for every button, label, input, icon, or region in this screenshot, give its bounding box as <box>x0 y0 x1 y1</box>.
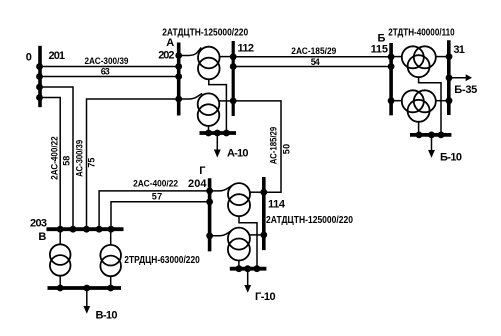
transformer T3 lead to bus 31 <box>435 56 449 58</box>
svg-text:63: 63 <box>101 67 110 77</box>
arrow B-10 stem <box>431 135 433 151</box>
transformer T7 windings <box>228 183 250 205</box>
svg-text:Г: Г <box>199 165 206 177</box>
arrowhead B-35 <box>466 74 472 81</box>
arrowhead A-10 <box>214 150 221 158</box>
wire 201-203 circuit 1 <box>40 87 74 229</box>
arrowhead B-10 <box>428 150 435 158</box>
transformer T4 lead to B-10 bar <box>418 122 420 135</box>
svg-text:В-10: В-10 <box>96 310 118 322</box>
transformer T7 upper G: lead from bus 204 <box>210 185 233 191</box>
junction dots V-10 bar <box>57 285 64 292</box>
svg-text:203: 203 <box>30 217 47 229</box>
svg-text:204: 204 <box>188 178 207 190</box>
svg-text:115: 115 <box>371 44 388 56</box>
transformer T4 windings <box>402 90 424 112</box>
wire 201-202 circuit 1 <box>40 66 179 68</box>
transformer T2 lower A: lead from bus 202 <box>179 93 203 99</box>
svg-text:75: 75 <box>86 158 96 168</box>
junction dots bus 31 <box>446 53 453 60</box>
junction dots B-10 bar <box>416 132 423 139</box>
transformer T5 stem bottom <box>59 276 61 288</box>
wire 112-115 circuit 2 <box>233 66 391 68</box>
svg-text:А-10: А-10 <box>227 148 249 160</box>
svg-text:0: 0 <box>26 51 32 63</box>
junction dots A-10 bar <box>205 130 212 137</box>
bus 204 <box>208 178 212 251</box>
svg-text:В: В <box>38 231 46 243</box>
svg-text:Б-10: Б-10 <box>440 152 462 164</box>
transformer T2 lead to bus 112 <box>219 100 233 102</box>
junction dots bus 203 <box>57 226 64 233</box>
wire 201-202 circuit 2 <box>40 76 179 78</box>
arrowhead V-10 <box>83 306 90 314</box>
junction dots bus 112 <box>230 53 237 60</box>
bus 203 <box>47 227 124 231</box>
bus 114 <box>262 177 266 250</box>
svg-text:201: 201 <box>49 50 66 62</box>
V-10 load bar <box>48 286 122 290</box>
svg-text:2АС-300/39: 2АС-300/39 <box>85 56 129 66</box>
transformer T6 windings <box>100 245 121 266</box>
wire 112-114 <box>233 101 281 192</box>
svg-text:114: 114 <box>268 199 286 211</box>
arrow B-35 stem <box>449 77 466 79</box>
transformer T6 stem bottom <box>110 276 112 288</box>
bus 201 <box>38 46 42 107</box>
wire 201-203 circuit 2 <box>40 98 61 230</box>
junction dots bus 202 <box>175 52 182 59</box>
transformer T1 lead to bus 112 <box>219 56 233 58</box>
transformer T1 upper A: lead from bus 202 <box>179 48 202 56</box>
svg-text:2ТРДЦН-63000/220: 2ТРДЦН-63000/220 <box>124 255 200 266</box>
transformer T7 lead to G-10 bar <box>239 216 257 269</box>
bus 115 <box>389 43 393 115</box>
svg-text:112: 112 <box>238 43 255 55</box>
svg-text:2ТДТН-40000/110: 2ТДТН-40000/110 <box>388 27 455 38</box>
wire 202-203 <box>87 99 179 229</box>
transformer T2 lead to A-10 bar <box>208 126 210 133</box>
svg-text:2АС-185/29: 2АС-185/29 <box>291 46 336 56</box>
B-10 load bar <box>410 133 451 137</box>
svg-text:АС-185/29: АС-185/29 <box>269 127 279 165</box>
transformer T7 lead to bus 114 <box>250 191 264 193</box>
transformer T3 lead to B-10 bar <box>419 77 441 135</box>
arrow V-10 stem <box>86 288 88 307</box>
svg-text:202: 202 <box>158 49 174 61</box>
wire 203-204 circuit 2 <box>111 202 210 229</box>
arrow A-10 <box>216 133 218 150</box>
junction dots bus 204 <box>206 188 213 195</box>
transformer T4 lower B: lead from bus 115 <box>391 100 402 102</box>
G-10 load bar <box>230 267 267 271</box>
transformer T4 lead to bus 31 <box>435 100 449 102</box>
transformer T2 lower A windings <box>198 93 220 115</box>
junction dots bus 115 <box>388 53 395 60</box>
svg-text:АС-300/39: АС-300/39 <box>74 140 84 177</box>
junction dots bus 114 <box>260 189 267 196</box>
transformer T3 windings <box>402 46 424 68</box>
arrow G-10 stem <box>247 269 249 286</box>
transformer T6 stem top <box>110 229 112 245</box>
wire 112-115 circuit 1 <box>233 56 391 58</box>
transformer T8 lower G: lead from bus 204 <box>210 230 233 236</box>
transformer T1 lead to A-10 bar <box>209 79 227 133</box>
bus 203 transformer T5 stem top <box>59 229 61 244</box>
junction dots G-10 bar <box>236 265 243 272</box>
transformer T8 lead to G-10 bar <box>238 261 240 269</box>
bus 31 <box>447 40 451 115</box>
transformer T5 windings <box>50 244 71 265</box>
svg-text:2АТДЦТН-125000/220: 2АТДЦТН-125000/220 <box>266 215 353 226</box>
svg-text:58: 58 <box>62 156 72 166</box>
bus 112 <box>232 41 235 116</box>
transformer T8 lead to bus 114 <box>250 234 264 236</box>
svg-text:Г-10: Г-10 <box>255 291 276 303</box>
svg-text:54: 54 <box>311 57 320 67</box>
transformer T3 upper B: lead from bus 115 <box>391 56 402 58</box>
svg-text:Б-35: Б-35 <box>454 84 477 96</box>
arrowhead G-10 <box>244 285 251 293</box>
svg-text:2АС-400/22: 2АС-400/22 <box>49 136 59 180</box>
junction dots bus 201 <box>36 63 43 70</box>
svg-text:2АС-400/22: 2АС-400/22 <box>133 179 178 189</box>
svg-text:А: А <box>166 37 174 49</box>
svg-text:31: 31 <box>453 44 465 56</box>
A-10 load bar <box>200 131 237 135</box>
svg-text:2АТДЦТН-125000/220: 2АТДЦТН-125000/220 <box>162 28 248 39</box>
wire 203-204 circuit 1 <box>99 191 210 229</box>
bus 202 <box>177 43 181 116</box>
transformer T1 upper A windings <box>198 47 220 69</box>
svg-text:57: 57 <box>152 192 163 202</box>
transformer T8 windings <box>228 228 250 250</box>
svg-text:50: 50 <box>282 144 292 155</box>
